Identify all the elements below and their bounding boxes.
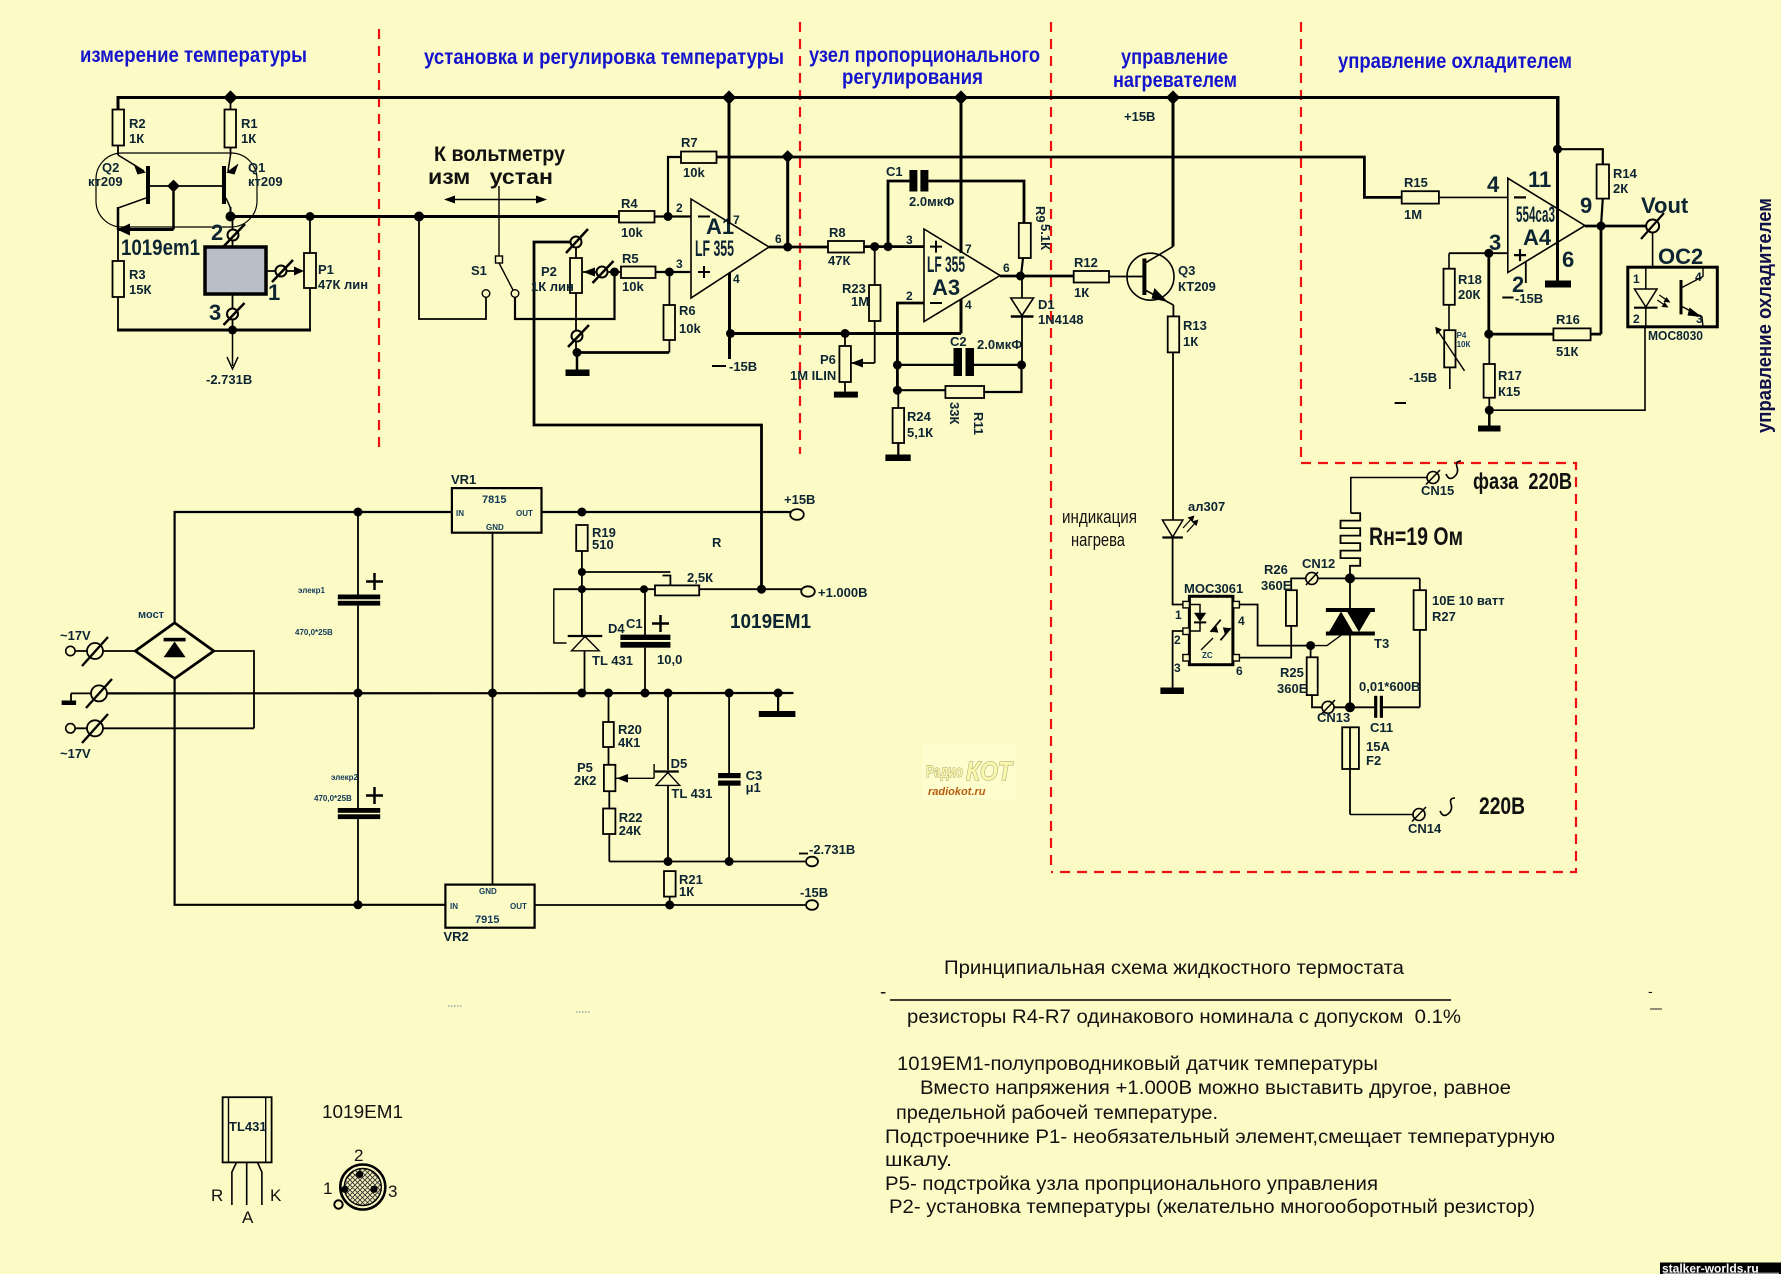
regulator VR1 7815 [451, 472, 542, 533]
svg-text:элекр1: элекр1 [298, 586, 326, 595]
svg-text:0,01*600В: 0,01*600В [1359, 679, 1420, 694]
svg-text:7: 7 [965, 242, 972, 256]
A1 pin 7 line [729, 98, 740, 228]
switch S1 [471, 186, 519, 297]
svg-text:1019ЕМ1-полупроводниковый датч: 1019ЕМ1-полупроводниковый датчик темпера… [897, 1054, 1378, 1075]
svg-text:IN: IN [456, 509, 464, 518]
wire: A4 output to Vout [1585, 222, 1647, 231]
svg-text:~17V: ~17V [60, 746, 91, 761]
svg-text:S1: S1 [471, 263, 487, 278]
svg-text:Вместо напряжения +1.000В можн: Вместо напряжения +1.000В можно выставит… [920, 1078, 1511, 1099]
svg-text:Rн=19 Ом: Rн=19 Ом [1369, 523, 1463, 551]
resistor R2 [113, 110, 146, 147]
svg-text:-15В: -15В [1409, 370, 1437, 385]
A4 pin 2 stub [1502, 262, 1543, 306]
connector CN12 [1302, 556, 1350, 585]
connector CN13 [1317, 700, 1374, 725]
svg-text:R13: R13 [1183, 318, 1207, 333]
resistor R18 20K [1444, 253, 1482, 330]
svg-text:-2.731В: -2.731В [206, 372, 252, 387]
svg-text:-15В: -15В [729, 359, 757, 374]
svg-text:15А: 15А [1366, 739, 1390, 754]
svg-text:6: 6 [1236, 664, 1243, 678]
svg-text:А4: А4 [1523, 225, 1552, 250]
ground below R17 [1478, 406, 1501, 432]
svg-text:1К: 1К [241, 131, 256, 146]
capacitor C1 2.0мкФ (A3 feedback) [886, 164, 1024, 247]
svg-text:узел пропорционального: узел пропорционального [809, 44, 1040, 67]
svg-text:1N4148: 1N4148 [1038, 312, 1084, 327]
svg-text:TL431: TL431 [229, 1119, 267, 1134]
svg-text:15К: 15К [129, 282, 151, 297]
svg-text:Q1: Q1 [248, 160, 265, 175]
A3 pin 4 line [961, 298, 972, 334]
svg-text:10k: 10k [621, 225, 643, 240]
svg-text:1К: 1К [1183, 334, 1198, 349]
svg-text:5.1К: 5.1К [1038, 224, 1053, 250]
potentiometer 2,5K [578, 568, 713, 595]
svg-text:4: 4 [1487, 172, 1500, 197]
1019em1 dual-transistor outline [96, 153, 257, 227]
package drawing 1019EM1 (TO-46 top view) [323, 1146, 397, 1210]
resistor R16 51K [1489, 312, 1601, 359]
wire: heater bottom node [1345, 573, 1420, 609]
wire: +15V top rail [118, 98, 1558, 150]
svg-text:VR1: VR1 [451, 472, 476, 487]
svg-text:1: 1 [268, 280, 280, 305]
svg-text:6: 6 [775, 232, 782, 246]
svg-text:2К2: 2К2 [574, 773, 596, 788]
svg-text:10k: 10k [622, 279, 644, 294]
svg-text:C11: C11 [1370, 720, 1393, 735]
svg-text:1: 1 [1175, 608, 1182, 622]
wire: main signal (sensor node) [226, 212, 620, 222]
capacitor элекр1 470,0*25В [295, 508, 383, 694]
svg-text:OUT: OUT [516, 509, 533, 518]
wire: ground rail (psu) [107, 689, 794, 698]
svg-text:нагрева: нагрева [1071, 530, 1126, 550]
wire: A1 output rail [717, 150, 1402, 197]
svg-text:2: 2 [354, 1146, 363, 1165]
wire: VR2 OUT to -15B [535, 901, 805, 910]
wire: MOC pin6 to R26 [1239, 626, 1291, 658]
sensor pin 3 connector [209, 294, 245, 330]
resistor R19 510 [576, 525, 616, 572]
wire: CN15 to heater [1351, 478, 1427, 514]
resistor R20 4К1 [603, 693, 642, 765]
svg-text:Подстроечнике Р1- необязательн: Подстроечнике Р1- необязательный элемент… [885, 1127, 1555, 1148]
resistor R8 47K [828, 225, 924, 268]
svg-text:470,0*25В: 470,0*25В [295, 628, 333, 637]
wire: A1 output to R8 [769, 157, 828, 252]
zener D5 TL431 [655, 693, 712, 862]
P2 wiper connector [583, 261, 619, 283]
svg-text:1019ЕМ1: 1019ЕМ1 [322, 1102, 403, 1122]
svg-text:КОТ: КОТ [966, 756, 1014, 786]
capacitor C2 2.0мкФ [897, 334, 1022, 376]
site label stalker-worlds.ru [1660, 1262, 1781, 1274]
mains squiggle at CN15 [1446, 461, 1461, 478]
svg-text:360Е: 360Е [1277, 681, 1308, 696]
svg-text:47К: 47К [828, 253, 850, 268]
heater element Rн=19 Ом [1341, 513, 1464, 578]
resistor R4 10k [619, 196, 691, 240]
svg-text:C1: C1 [886, 164, 903, 179]
svg-text:ал307: ал307 [1188, 499, 1225, 514]
svg-text:R12: R12 [1074, 255, 1098, 270]
svg-text:R3: R3 [129, 267, 146, 282]
sensor body 1019em1 [205, 247, 266, 294]
svg-text:2К: 2К [1613, 181, 1628, 196]
voltmeter select double arrow [444, 196, 547, 204]
svg-text:3: 3 [676, 257, 683, 271]
svg-text:2.0мкФ: 2.0мкФ [909, 194, 954, 209]
svg-text:2,5К: 2,5К [687, 570, 713, 585]
MOC3061 internal LED [1189, 605, 1206, 632]
P6 wiper to R23 [851, 359, 875, 368]
resistor R1 [225, 98, 258, 148]
svg-text:R2: R2 [129, 116, 146, 131]
resistor R12 1K [1074, 255, 1128, 300]
svg-text:CN14: CN14 [1408, 821, 1442, 836]
wire: S1 right throw to setpoint node [515, 272, 615, 319]
svg-text:Q3: Q3 [1178, 263, 1195, 278]
svg-text:1019em1: 1019em1 [121, 235, 200, 260]
terminal GND (middle) [62, 679, 112, 708]
ground symbol on psu rail [759, 693, 796, 717]
svg-text:2: 2 [676, 201, 683, 215]
svg-text:OUT: OUT [510, 902, 527, 911]
svg-text:stalker-worlds.ru: stalker-worlds.ru [1662, 1262, 1759, 1274]
svg-text:R5: R5 [622, 251, 639, 266]
resistor R7 10k (A1 feedback) [664, 135, 717, 221]
svg-text:R15: R15 [1404, 175, 1428, 190]
op-amp A1 LF355 [691, 199, 769, 298]
Vout connector [1641, 193, 1689, 239]
diode D1 1N4148 [1011, 276, 1084, 365]
svg-text:6: 6 [1562, 247, 1574, 272]
OC2 internal phototransistor [1681, 267, 1703, 327]
junction on +15V rail at A3 pin7 [954, 90, 968, 104]
label -15B under A1 [712, 359, 757, 374]
fuse F2 15A [1342, 727, 1390, 814]
resistor R13 1K [1168, 305, 1207, 520]
svg-text:R9: R9 [1033, 206, 1048, 223]
wire: +1.000B line [699, 585, 802, 594]
svg-text:1019ЕМ1: 1019ЕМ1 [730, 611, 811, 633]
ground for MOC3061 [1160, 688, 1184, 695]
junction on +15V rail at Q3 collector [1166, 90, 1180, 104]
svg-text:R6: R6 [679, 303, 696, 318]
svg-text:фаза 220В: фаза 220В [1473, 468, 1572, 494]
svg-text:управление охладителем: управление охладителем [1754, 198, 1776, 433]
section divider dashed line 3 / heater box left edge [1050, 22, 1052, 872]
svg-text:-15В: -15В [800, 885, 828, 900]
svg-text:CN12: CN12 [1302, 556, 1335, 571]
capacitor C11 0,01*600В [1359, 679, 1420, 735]
ground below P2 [566, 353, 590, 377]
svg-text:IN: IN [450, 902, 458, 911]
optocoupler OC2 MOC8030 [1628, 244, 1718, 343]
underline [890, 999, 1451, 1001]
watermark РадиоКОТ [922, 744, 1016, 799]
capacitor C1 10,0 (psu) [620, 589, 682, 693]
svg-text:R27: R27 [1432, 609, 1456, 624]
svg-text:TL 431: TL 431 [671, 786, 712, 801]
faint dotted marks [448, 1005, 462, 1007]
svg-text:510: 510 [592, 537, 614, 552]
svg-text:360Е: 360Е [1261, 578, 1292, 593]
svg-text:+15В: +15В [1124, 109, 1155, 124]
svg-text:554са3: 554са3 [1516, 202, 1555, 227]
svg-text:Р2- установка температуры (жел: Р2- установка температуры (желательно мн… [889, 1197, 1535, 1218]
wire: LED to MOC3061 pin1 [1173, 538, 1183, 605]
svg-text:2.0мкФ: 2.0мкФ [977, 337, 1022, 352]
svg-text:~17V: ~17V [60, 628, 91, 643]
resistor R25 360Е [1277, 657, 1322, 707]
transistor Q1 кт209 [224, 148, 283, 218]
potentiometer P6 1M ILIN [790, 329, 858, 398]
wire: VR GND vertical [492, 533, 494, 885]
svg-text:2: 2 [906, 289, 913, 303]
svg-text:MOC3061: MOC3061 [1184, 581, 1243, 596]
bridge rectifier мост [135, 609, 214, 679]
svg-text:D1: D1 [1038, 297, 1055, 312]
resistor R14 2K [1558, 149, 1638, 226]
wire: Q1/Q2 base tie [117, 180, 222, 236]
svg-text:1: 1 [1633, 272, 1640, 286]
svg-text:кт209: кт209 [248, 174, 283, 189]
triac gate wire [1306, 635, 1342, 658]
zener D4 TL431 [554, 589, 633, 693]
wire: A3 output node [1000, 261, 1074, 281]
package drawing TL431 (TO-92) [211, 1097, 282, 1227]
node -2.731B arrow [206, 330, 252, 387]
resistor R27 10Е 10 ватт [1414, 578, 1505, 707]
svg-text:элекр2: элекр2 [331, 773, 359, 782]
svg-text:А: А [242, 1208, 254, 1227]
svg-text:1М ILIN: 1М ILIN [790, 368, 836, 383]
svg-text:1М: 1М [1404, 207, 1422, 222]
svg-text:TL 431: TL 431 [592, 653, 633, 668]
section divider dashed line 2 [799, 22, 801, 454]
svg-text:R26: R26 [1264, 562, 1288, 577]
wire: -15V rail to A1/A3 pin4 [726, 329, 961, 359]
svg-text:1К: 1К [679, 884, 694, 899]
svg-text:10,0: 10,0 [657, 652, 682, 667]
svg-text:управление охладителем: управление охладителем [1338, 50, 1572, 73]
svg-text:предельной рабочей температуре: предельной рабочей температуре. [896, 1103, 1218, 1124]
wire: R19/D4 node to pot left [554, 572, 655, 593]
svg-text:2: 2 [1174, 633, 1181, 647]
svg-text:МОС8030: МОС8030 [1648, 328, 1703, 343]
svg-text:-2.731В: -2.731В [809, 842, 855, 857]
svg-text:10k: 10k [683, 165, 705, 180]
svg-text:измерение температуры: измерение температуры [80, 44, 307, 67]
svg-text:3: 3 [906, 233, 913, 247]
svg-text:R: R [211, 1186, 223, 1205]
wire: VR1 OUT to +15B terminal [542, 508, 792, 517]
svg-text:резисторы R4-R7 одинакового но: резисторы R4-R7 одинакового номинала с д… [907, 1007, 1461, 1028]
svg-text:1М: 1М [851, 294, 869, 309]
terminal ~17V (lower) [60, 714, 254, 761]
svg-text:Т3: Т3 [1374, 636, 1389, 651]
svg-text:CN15: CN15 [1421, 483, 1454, 498]
optocoupler MOC3061 [1174, 581, 1245, 678]
wire: A4 pin3 node [1449, 249, 1508, 339]
resistor R15 1M [1402, 175, 1508, 222]
svg-text:10К: 10К [1457, 340, 1471, 349]
resistor R22 24К [603, 791, 642, 861]
svg-text:P1: P1 [318, 262, 334, 277]
wire: P2 bottom to R6 bottom [577, 351, 669, 354]
transistor Q2 кт209 [88, 146, 148, 231]
svg-text:P6: P6 [820, 352, 836, 367]
wire: A3 pin2 net [893, 303, 924, 395]
svg-text:2: 2 [211, 220, 223, 245]
regulator VR2 7915 [444, 885, 535, 944]
svg-text:Принципиальная схема жидкостно: Принципиальная схема жидкостного термост… [944, 958, 1404, 979]
wire: -2.731B rail [609, 857, 805, 866]
svg-text:P4: P4 [1457, 331, 1467, 340]
svg-text:7: 7 [733, 213, 740, 227]
svg-text:1К: 1К [1074, 285, 1089, 300]
svg-text:R: R [712, 535, 722, 550]
svg-text:А3: А3 [932, 275, 960, 300]
svg-text:К вольтметру: К вольтметру [434, 143, 565, 166]
node: A3 pin3 junctions [870, 242, 892, 251]
svg-text:-: - [880, 982, 886, 1003]
svg-text:F2: F2 [1366, 753, 1381, 768]
svg-text:2: 2 [1633, 312, 1640, 326]
OC2 internal LED [1634, 267, 1671, 327]
triac T3 [1326, 610, 1389, 706]
svg-text:10k: 10k [679, 321, 701, 336]
junction on +15V rail at A1 pin7 [722, 90, 736, 104]
svg-text:шкалу.: шкалу. [885, 1150, 952, 1171]
svg-text:24К: 24К [619, 823, 641, 838]
svg-text:+1.000В: +1.000В [818, 585, 868, 600]
svg-text:кт209: кт209 [88, 174, 123, 189]
wire: P2 top to +1.000V feed [534, 242, 762, 589]
wire: A4 output to R16 [1600, 226, 1603, 334]
resistor R24 5,1K [885, 390, 933, 461]
svg-text:4: 4 [733, 272, 740, 286]
svg-text:1К: 1К [129, 131, 144, 146]
wire: F2 to CN14 [1350, 814, 1413, 816]
resistor R5 10k [615, 251, 692, 294]
svg-text:6: 6 [1003, 261, 1010, 275]
svg-text:VR2: VR2 [444, 929, 469, 944]
svg-text:47К лин: 47К лин [318, 277, 368, 292]
svg-text:ОС2: ОС2 [1658, 244, 1703, 269]
capacitor C3 μ1 [718, 693, 762, 862]
svg-text:R11: R11 [971, 412, 986, 435]
heater box dashed outline (top,right,bottom) [1051, 463, 1576, 872]
svg-text:CN13: CN13 [1317, 710, 1350, 725]
svg-text:R16: R16 [1556, 312, 1580, 327]
wire: MOC3061 pin2 to ground [1173, 631, 1183, 688]
svg-text:9: 9 [1580, 193, 1592, 218]
svg-text:Радио: Радио [926, 762, 963, 781]
wire: MOC pin4 to gate node [1239, 605, 1310, 646]
svg-text:3: 3 [388, 1182, 397, 1201]
resistor R3 [113, 230, 152, 331]
section divider dashed line 1 [378, 29, 380, 454]
svg-text:-: - [1648, 983, 1653, 999]
svg-text:20К: 20К [1458, 287, 1480, 302]
capacitor элекр2 470,0*25В [314, 689, 383, 910]
terminal -2.731B [799, 842, 855, 866]
svg-text:470,0*25В: 470,0*25В [314, 794, 352, 803]
junction on +15V rail at R1 [223, 90, 237, 104]
svg-text:+15В: +15В [784, 492, 815, 507]
wire: bridge bottom to -15 raw rail [175, 679, 446, 905]
svg-text:-15В: -15В [1515, 291, 1543, 306]
svg-text:мост: мост [138, 609, 165, 621]
wire: sensor bottom rail [117, 326, 311, 335]
section divider dashed line 4 [1300, 22, 1302, 463]
MOC3061 internal triac and ZC [1201, 605, 1233, 661]
svg-text:Vout: Vout [1641, 193, 1689, 218]
svg-text:P2: P2 [541, 264, 557, 279]
resistor R17 К15 [1484, 334, 1522, 410]
resistor R9 5.1K [1019, 206, 1053, 276]
terminal +15B [784, 492, 815, 520]
terminal ~17V (upper) [60, 628, 135, 666]
mains squiggle at CN14 [1440, 798, 1455, 815]
svg-text:D4: D4 [608, 621, 625, 636]
wire: S1 left throw to measure node [419, 217, 486, 320]
sensor pin 2 connector [211, 217, 245, 248]
svg-text:4К1: 4К1 [618, 735, 640, 750]
resistor R23 1M [842, 247, 881, 363]
connector CN14 [1408, 807, 1442, 836]
LED ал307 [1162, 499, 1225, 538]
svg-text:3: 3 [1174, 661, 1181, 675]
svg-text:LF 355: LF 355 [927, 252, 965, 277]
svg-text:7915: 7915 [475, 914, 499, 926]
svg-text:C2: C2 [950, 334, 967, 349]
A1 pin 4 line [730, 272, 741, 334]
connector CN15 [1421, 470, 1454, 498]
svg-text:R24: R24 [907, 409, 932, 424]
svg-text:11: 11 [1528, 167, 1551, 192]
svg-text:R8: R8 [829, 225, 846, 240]
svg-text:7815: 7815 [482, 494, 506, 506]
svg-text:1: 1 [323, 1179, 332, 1198]
svg-text:индикация: индикация [1062, 507, 1137, 527]
svg-text:33К: 33К [947, 402, 962, 424]
svg-text:регулирования: регулирования [842, 66, 983, 89]
svg-text:нагревателем: нагревателем [1113, 69, 1237, 92]
svg-text:μ1: μ1 [746, 780, 761, 795]
stray dash [1395, 402, 1406, 404]
trimmer P4 10K [1409, 327, 1470, 389]
svg-text:51К: 51К [1556, 344, 1578, 359]
A4 pin 11/6 vertical with ground [1545, 98, 1571, 288]
resistor R26 360E [1261, 562, 1306, 626]
svg-text:220В: 220В [1479, 793, 1525, 820]
resistor R11 33K [897, 360, 1026, 435]
potentiometer P5 2К2 [574, 760, 654, 791]
svg-text:LF 355: LF 355 [695, 236, 734, 261]
svg-text:управление: управление [1121, 46, 1228, 69]
svg-text:R1: R1 [241, 116, 258, 131]
svg-text:установка и регулировка темпер: установка и регулировка температуры [424, 46, 784, 69]
svg-text:R7: R7 [681, 135, 698, 150]
svg-text:Р5- подстройка узла пропрциона: Р5- подстройка узла пропрционального упр… [885, 1174, 1378, 1195]
